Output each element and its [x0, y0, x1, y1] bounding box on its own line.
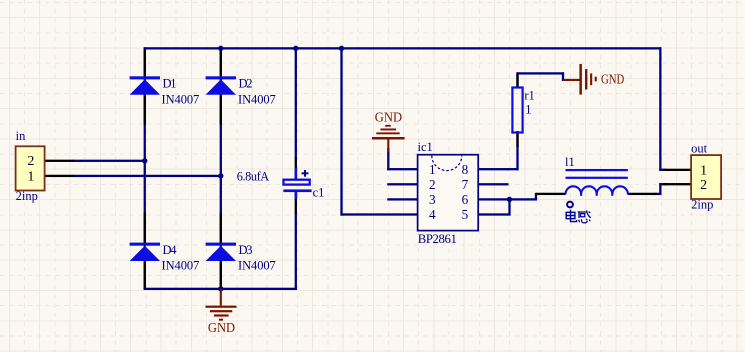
IC U1 BP2861: [418, 155, 479, 231]
ground: bottom GND power port: [206, 289, 237, 321]
wire: horizontal into IC pin 5: [479, 213, 511, 215]
wire: capacitor column upper: [295, 47, 297, 157]
wire: IC pin 8 horizontal to r1: [507, 168, 519, 170]
pin: D3 anode: [220, 261, 222, 289]
pin: IC pin 8 stub: [478, 168, 509, 170]
ground: mid GND power port above IC (rotated up): [372, 125, 405, 152]
svg-text:GND: GND: [601, 71, 625, 86]
pin: out connector pin 1 stub: [663, 169, 692, 171]
wire: GND to IC pin 1 horizontal: [387, 168, 418, 170]
pin: in connector pin 1 stub: [45, 175, 75, 177]
svg-text:D4: D4: [163, 243, 178, 257]
wire: r1 top vertical: [516, 72, 518, 88]
pin: r1 bottom: [516, 132, 518, 147]
svg-text:IN4007: IN4007: [238, 92, 276, 106]
wire: D2/D3 column: [220, 47, 222, 290]
svg-text:7: 7: [462, 177, 469, 192]
wire: corner down to sideways GND stem: [562, 72, 564, 81]
ground: right GND power port (rotated sideways): [563, 64, 597, 95]
svg-text:D2: D2: [239, 77, 253, 91]
svg-text:6.8ufA: 6.8ufA: [237, 170, 270, 184]
svg-text:2: 2: [27, 154, 34, 169]
wire: horizontal into IC pin 4: [340, 213, 418, 215]
wire: junction down to IC pin 5 row: [508, 198, 510, 215]
wire: GND to IC pin 1 vertical: [387, 148, 389, 170]
capacitor C1: [283, 168, 311, 200]
pin: inductor left: [536, 193, 566, 195]
pin: D3 cathode: [220, 213, 222, 243]
wire: right vertical from top rail to out pin 1: [659, 47, 661, 171]
svg-text:5: 5: [462, 207, 469, 222]
svg-text:2inp: 2inp: [16, 189, 38, 203]
wire: r1 bottom to IC pin 8: [516, 131, 518, 170]
wire: in pin 2 to D1 column: [74, 160, 147, 162]
diode D4: [130, 243, 160, 261]
junction: top rail / D2 column: [218, 46, 223, 51]
svg-text:1: 1: [27, 169, 34, 184]
svg-text:4: 4: [429, 207, 436, 222]
pin: out connector pin 2 stub: [663, 183, 692, 185]
svg-text:2: 2: [429, 177, 436, 192]
svg-text:2inp: 2inp: [691, 197, 713, 211]
wire: drop from top rail to IC pin 4: [340, 47, 342, 215]
svg-text:in: in: [16, 129, 26, 143]
svg-text:1: 1: [700, 163, 707, 178]
pin: in connector pin 2 stub: [45, 160, 75, 162]
diode D1: [130, 76, 160, 94]
wire: corner into out pin 2: [659, 183, 666, 185]
svg-text:1: 1: [429, 162, 436, 177]
junction: top rail / pin4 drop: [339, 46, 344, 51]
svg-text:out: out: [691, 142, 708, 156]
junction: IC pin6/pin5/inductor: [507, 197, 512, 202]
svg-text:ic1: ic1: [418, 140, 433, 154]
pin: D4 anode: [144, 261, 146, 289]
label: l1 comment 电感 (drawn strokes): [566, 210, 591, 223]
svg-text:c1: c1: [313, 185, 325, 199]
wire: stub into out pin 1: [659, 169, 666, 171]
svg-text:6: 6: [462, 192, 469, 207]
svg-text:BP2861: BP2861: [418, 232, 457, 246]
wire: bottom rail: [144, 288, 297, 290]
svg-text:GND: GND: [375, 109, 402, 124]
pin: capacitor c1 bottom: [295, 191, 297, 214]
wire: r1 top horizontal to GND: [516, 72, 564, 74]
junction: in pin 2 / D1 column: [142, 158, 147, 163]
wire: jog up to inductor left pin: [535, 193, 537, 201]
wire: D1/D4 column: [144, 47, 146, 290]
inductor l1: [566, 169, 628, 207]
svg-text:8: 8: [462, 162, 469, 177]
diode D2: [206, 76, 236, 94]
svg-text:D1: D1: [163, 77, 177, 91]
svg-text:2: 2: [700, 178, 707, 193]
pin: inductor right: [628, 193, 657, 195]
junction: bottom rail / GND: [218, 286, 223, 291]
svg-text:IN4007: IN4007: [238, 258, 276, 272]
pin: D2 cathode: [220, 49, 222, 77]
wire: inductor right to out pin 2 corner vertical: [659, 183, 661, 195]
junction: top rail / capacitor column: [293, 46, 298, 51]
pin: IC pin 2 stub: [387, 183, 418, 185]
svg-text:GND: GND: [208, 321, 235, 336]
svg-text:D3: D3: [239, 243, 253, 257]
svg-text:1: 1: [525, 103, 531, 117]
svg-text:IN4007: IN4007: [162, 92, 200, 106]
diode D3: [206, 243, 236, 261]
wire: inductor right horizontal: [655, 193, 661, 195]
junction: in pin 1 / D2 column: [218, 173, 223, 178]
svg-text:3: 3: [429, 192, 436, 207]
resistor r1: [512, 88, 522, 133]
pin: D2 anode: [220, 95, 222, 125]
svg-text:l1: l1: [565, 155, 575, 169]
pin: IC pin 3 stub: [387, 198, 418, 200]
wire: in pin 1 to D2 column: [74, 175, 222, 177]
wire: top rail: [144, 47, 662, 49]
pin: IC pin 7 stub: [478, 183, 509, 185]
pin: r1 top: [516, 73, 518, 88]
wire: IC pin 6 to junction and inductor: [507, 198, 537, 200]
pin: IC pin 6 stub: [478, 198, 509, 200]
svg-text:r1: r1: [524, 89, 534, 103]
pin: capacitor c1 top: [295, 157, 297, 180]
connector out: [691, 155, 721, 199]
svg-text:IN4007: IN4007: [162, 258, 200, 272]
pin: D1 cathode: [144, 49, 146, 77]
pin: D1 anode: [144, 95, 146, 125]
wire: capacitor column lower: [295, 213, 297, 290]
connector in: [16, 146, 45, 190]
pin: D4 cathode: [144, 213, 146, 243]
